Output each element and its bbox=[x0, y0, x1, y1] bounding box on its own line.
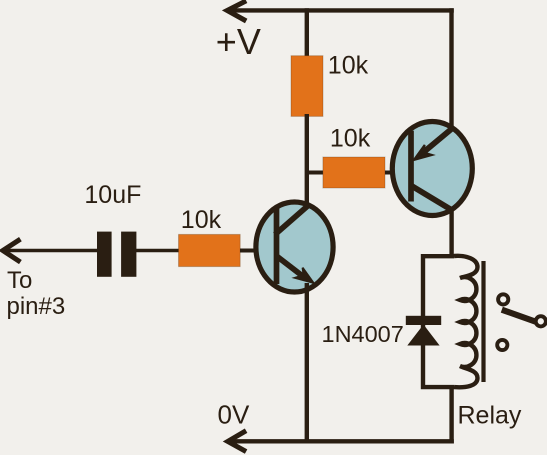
svg-text:1N4007: 1N4007 bbox=[322, 321, 404, 347]
wire: input to capacitor bbox=[4, 249, 98, 253]
transistor Q1 collector diagonal bbox=[275, 206, 308, 235]
wire: R1 bottom to Q1 collector bbox=[305, 114, 309, 207]
capacitor C1 10uF plate 1 bbox=[97, 232, 112, 277]
svg-text:10k: 10k bbox=[181, 206, 222, 234]
relay switch NO contact (ring) bbox=[497, 340, 507, 350]
relay RL1 core bar bbox=[481, 261, 485, 382]
svg-text:Relay: Relay bbox=[458, 402, 522, 430]
capacitor C1 10uF plate 2 bbox=[121, 232, 136, 277]
wire: 0V bottom rail bbox=[229, 439, 454, 443]
wire: capacitor to R3 bbox=[136, 249, 180, 253]
transistor Q1 (NPN) body bbox=[256, 202, 333, 292]
transistor Q1 emitter diagonal bbox=[277, 256, 303, 276]
svg-text:To: To bbox=[7, 267, 32, 294]
relay switch common contact (ring) bbox=[498, 294, 508, 304]
resistor R2 10k (horizontal) bbox=[323, 157, 385, 188]
relay RL1 coil windings bbox=[454, 256, 478, 387]
wire: top rail corner down to Q2 bbox=[449, 8, 453, 131]
svg-text:10uF: 10uF bbox=[84, 181, 141, 209]
transistor Q2 base bar bbox=[408, 131, 414, 202]
diode D1 1N4007 triangle bbox=[407, 325, 439, 346]
transistor Q1 base bar bbox=[274, 208, 280, 284]
wire: R2 to Q2 base bbox=[385, 171, 396, 175]
resistor R1 10k (vertical) bbox=[291, 56, 323, 117]
wire: R3 to Q1 base bbox=[240, 249, 258, 253]
wire: +V rail down to R1 bbox=[305, 8, 309, 58]
svg-text:pin#3: pin#3 bbox=[7, 293, 66, 320]
svg-text:0V: 0V bbox=[218, 399, 250, 429]
wire: Q1 emitter down to 0V rail bbox=[305, 283, 309, 444]
svg-text:10k: 10k bbox=[328, 52, 369, 80]
node 0V arrow bbox=[228, 431, 246, 452]
wire: Q2 collector down to relay bbox=[449, 207, 453, 258]
transistor Q2 (PNP) body bbox=[392, 122, 472, 216]
svg-text:10k: 10k bbox=[330, 124, 371, 152]
node input arrow To pin#3 bbox=[3, 239, 21, 262]
transistor Q2 emitter diagonal bbox=[422, 129, 452, 154]
wire: +V top rail bbox=[228, 8, 454, 12]
diode D1 1N4007 cathode bar bbox=[406, 316, 441, 325]
svg-text:+V: +V bbox=[216, 21, 261, 62]
wire: branch to R2 bbox=[306, 171, 325, 175]
wire: relay bottom to 0V rail bbox=[449, 385, 453, 444]
relay switch lever bbox=[502, 310, 537, 322]
relay RL1 coil box outline (left, top, bottom edges) bbox=[423, 256, 454, 387]
resistor R3 10k (horizontal) bbox=[179, 234, 241, 266]
relay switch armature end contact (ring) bbox=[536, 316, 546, 326]
transistor Q2 emitter arrowhead (PNP, points to base) bbox=[414, 145, 432, 160]
transistor Q1 emitter arrowhead bbox=[295, 268, 313, 283]
node +V arrow (supply input) bbox=[227, 1, 246, 21]
transistor Q2 collector diagonal bbox=[411, 186, 453, 211]
